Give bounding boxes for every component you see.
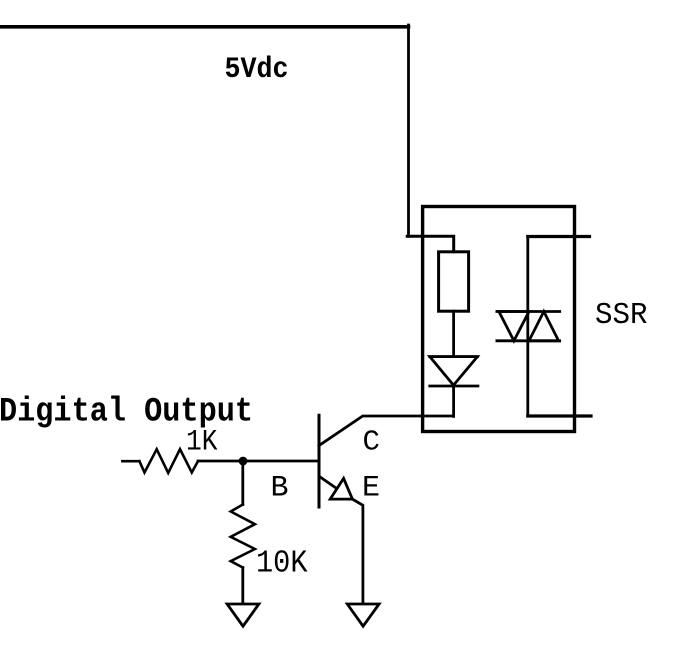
- diode LED anode bar: [430, 355, 478, 358]
- resistor internal (SSR input): [439, 252, 469, 311]
- resistor R2 10K: [231, 505, 255, 568]
- wire digital output lead: [122, 460, 139, 463]
- wire jog into SSR input: [407, 236, 454, 252]
- svg-text:1K: 1K: [186, 426, 218, 460]
- ground left: [227, 604, 259, 626]
- svg-text:C: C: [363, 426, 380, 459]
- svg-text:5Vdc: 5Vdc: [225, 53, 289, 87]
- transistor Q1 base bar: [318, 415, 321, 507]
- wire 10K to ground: [241, 568, 244, 604]
- diode LED cathode bar: [430, 385, 478, 388]
- transistor Q1 emitter arrow: [330, 478, 352, 499]
- wire base node: [198, 460, 319, 463]
- transistor Q1 emitter lead: [320, 477, 335, 487]
- wire 5V vertical drop: [407, 25, 410, 236]
- svg-text:SSR: SSR: [595, 299, 648, 333]
- SSR box U1: [423, 207, 575, 432]
- wire 5V top rail: [0, 25, 409, 29]
- svg-text:E: E: [362, 472, 380, 506]
- node junction dot: [239, 457, 248, 466]
- wire SSR output top stub: [528, 235, 590, 238]
- resistor R1 1K: [139, 449, 198, 473]
- wire SSR output bottom stub: [528, 414, 591, 417]
- wire triac top lead: [526, 237, 529, 417]
- triac top terminal line: [497, 310, 560, 313]
- triac left triangle: [499, 312, 529, 341]
- triac bottom terminal line: [497, 339, 560, 342]
- svg-text:10K: 10K: [256, 546, 308, 581]
- wire resistor to LED: [452, 311, 455, 356]
- triac right triangle: [529, 312, 559, 341]
- wire emitter to ground: [352, 499, 363, 603]
- wire junction to 10K: [241, 461, 244, 505]
- ground right: [347, 604, 379, 626]
- diode LED triangle: [430, 357, 478, 386]
- transistor Q1 collector lead: [319, 416, 454, 446]
- svg-text:B: B: [271, 471, 289, 505]
- wire LED cathode to SSR pin: [452, 386, 455, 416]
